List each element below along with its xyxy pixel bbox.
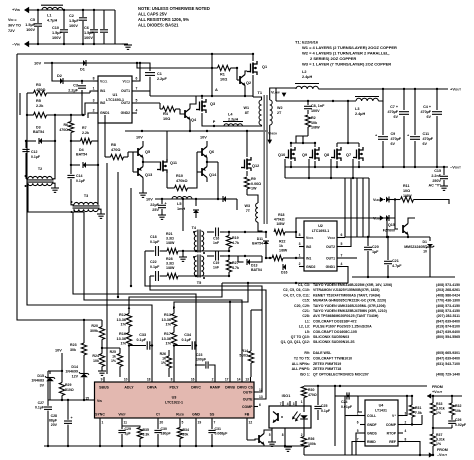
capacitor C11 — [414, 89, 416, 135]
svg-text:R23: R23 — [70, 343, 77, 347]
svg-text:ALL RESISTORS 1206, 5%: ALL RESISTORS 1206, 5% — [138, 17, 189, 22]
ISO1 arrows — [293, 412, 298, 419]
svg-text:2.2k: 2.2k — [36, 104, 44, 108]
wire main input bus — [17, 53, 253, 55]
svg-text:C25: C25 — [321, 404, 327, 408]
svg-text:R10: R10 — [176, 174, 183, 178]
wire U2 right — [342, 237, 345, 239]
svg-text:0.1µF: 0.1µF — [35, 406, 45, 410]
svg-text:COILCRAFT TTWB1010: COILCRAFT TTWB1010 — [313, 356, 352, 360]
svg-text:C22: C22 — [150, 260, 157, 264]
svg-text:RTOP: RTOP — [387, 432, 397, 436]
svg-text:U1: U1 — [113, 92, 119, 97]
svg-text:LTC1693-1: LTC1693-1 — [312, 229, 329, 233]
wire net A horiz — [150, 95, 253, 97]
svg-text:W3: W3 — [244, 204, 250, 208]
capacitor C5 — [37, 10, 39, 23]
svg-text:U3: U3 — [172, 396, 177, 400]
svg-text:C34: C34 — [184, 333, 192, 337]
svg-text:20: 20 — [160, 421, 164, 425]
svg-text:C21:: C21: — [302, 309, 310, 313]
svg-text:R12: R12 — [119, 313, 126, 317]
svg-text:4: 4 — [405, 429, 407, 433]
svg-text:Q7 TO Q10:: Q7 TO Q10: — [291, 335, 310, 339]
resistor R22 — [272, 255, 283, 260]
svg-text:1%: 1% — [436, 411, 442, 415]
svg-text:510Ω: 510Ω — [65, 388, 74, 392]
resistor R12 — [126, 314, 131, 327]
svg-text:Q4: Q4 — [191, 118, 197, 122]
svg-text:CS: CS — [248, 386, 254, 390]
wire u4 ref — [403, 442, 420, 456]
svg-text:L3: L3 — [355, 107, 359, 111]
wire gate harness h — [285, 177, 369, 179]
svg-text:(847) 639-6400: (847) 639-6400 — [436, 356, 460, 360]
svg-text:1.5µF: 1.5µF — [52, 31, 62, 35]
transistor Q4 — [184, 110, 186, 118]
transformer T5 — [194, 256, 197, 276]
svg-text:C20, C29:: C20, C29: — [294, 304, 310, 308]
svg-text:1W: 1W — [251, 187, 257, 191]
wire harness verts — [344, 178, 346, 237]
wire driver vert a — [106, 163, 108, 374]
svg-text:4: 4 — [341, 262, 343, 266]
svg-text:Q11: Q11 — [170, 161, 177, 165]
capacitor C22u — [161, 199, 163, 204]
svg-text:1.5µF: 1.5µF — [69, 19, 79, 23]
svg-text:1%: 1% — [166, 342, 172, 346]
svg-text:10: 10 — [124, 378, 128, 382]
resistor R29 — [59, 383, 64, 396]
svg-text:10V: 10V — [34, 61, 41, 66]
ISO1 phototransistor — [277, 413, 279, 421]
transistor Q7 — [356, 150, 358, 159]
svg-text:Q15: Q15 — [388, 223, 395, 227]
svg-text:14: 14 — [237, 378, 241, 382]
wire vin row — [48, 399, 95, 401]
svg-text:L2, L3:: L2, L3: — [299, 325, 310, 329]
resistor R13 — [171, 314, 176, 327]
svg-text:20k: 20k — [183, 433, 189, 437]
svg-text:GND1: GND1 — [326, 265, 336, 269]
transformer T1 W1 — [259, 100, 262, 125]
svg-text:13.3k: 13.3k — [116, 337, 126, 341]
svg-text:C10: C10 — [52, 26, 59, 30]
U1 pin stubs — [93, 80, 98, 82]
svg-text:ISO1: ISO1 — [282, 394, 291, 398]
svg-text:9.31k: 9.31k — [436, 438, 445, 442]
svg-text:0.02µF: 0.02µF — [455, 423, 467, 427]
svg-text:Q13: Q13 — [145, 173, 152, 177]
svg-text:U2: U2 — [318, 224, 323, 228]
wire t5 sec top — [224, 255, 262, 257]
svg-text:470µF: 470µF — [387, 110, 398, 114]
svg-text:3: 3 — [405, 412, 407, 416]
ISO1 grounds — [268, 441, 276, 443]
svg-text:(770) 436-1300: (770) 436-1300 — [436, 299, 460, 303]
svg-text:ALL NPNs:: ALL NPNs: — [292, 362, 310, 366]
svg-text:GND2: GND2 — [306, 265, 316, 269]
wire rail y131 — [125, 130, 268, 132]
svg-text:R33: R33 — [436, 402, 442, 406]
wire -VIN rail — [27, 43, 122, 45]
wire q14 down — [195, 172, 197, 188]
svg-text:R26: R26 — [160, 352, 166, 356]
svg-text:7.5k: 7.5k — [415, 411, 422, 415]
svg-text:COILCRAFT DO1608C-105: COILCRAFT DO1608C-105 — [313, 330, 357, 334]
svg-text:Q9: Q9 — [302, 153, 307, 157]
svg-text:6V: 6V — [393, 115, 398, 119]
svg-text:7: 7 — [214, 421, 216, 425]
svg-text:Q7: Q7 — [346, 153, 351, 157]
svg-text:C27: C27 — [38, 401, 44, 405]
svg-text:6: 6 — [136, 77, 138, 81]
svg-text:C8, 1nF: C8, 1nF — [311, 104, 325, 108]
svg-text:TAIYO YUDEN EMK316BJ225M (X5R,: TAIYO YUDEN EMK316BJ225M (X5R, 16V, 1206… — [313, 283, 392, 287]
svg-text:20V: 20V — [51, 423, 58, 427]
svg-text:BAT54: BAT54 — [252, 242, 263, 246]
svg-text:0.1µF: 0.1µF — [136, 338, 146, 342]
wire row y277 — [352, 276, 455, 278]
svg-text:2: 2 — [93, 109, 95, 113]
svg-text:100V: 100V — [26, 28, 35, 32]
svg-text:BAT54: BAT54 — [76, 153, 87, 157]
svg-text:C7 +: C7 + — [390, 105, 398, 109]
driver U2 box — [304, 221, 337, 271]
svg-text:C14: C14 — [76, 174, 82, 178]
resistor R30 — [301, 387, 306, 398]
wire u4 vplus — [403, 396, 407, 416]
wire -VOUT rail — [285, 166, 448, 168]
wire loop P — [174, 283, 248, 311]
svg-text:GND: GND — [192, 413, 200, 417]
diode D row2 — [223, 196, 226, 202]
svg-text:10V: 10V — [55, 349, 62, 353]
svg-text:VCC2: VCC2 — [328, 236, 336, 240]
svg-text:Q12: Q12 — [252, 164, 259, 168]
svg-text:FB: FB — [245, 413, 250, 417]
svg-text:PDLY: PDLY — [169, 386, 179, 390]
svg-text:R8: R8 — [111, 143, 116, 147]
svg-text:L5:: L5: — [305, 330, 310, 334]
wire loop x27 — [27, 93, 152, 377]
svg-text:C28: C28 — [51, 414, 57, 418]
wire gnd pin down — [195, 424, 197, 446]
svg-text:+VIN: +VIN — [12, 7, 20, 12]
svg-text:W2 = 4 LAYERS (1 TURN/LAYER 2: W2 = 4 LAYERS (1 TURN/LAYER 2 PARALLEL, — [302, 51, 390, 56]
svg-text:+VOUT: +VOUT — [450, 87, 461, 92]
wire u1 out2 — [137, 102, 160, 104]
svg-text:(847) 639-6400: (847) 639-6400 — [436, 319, 460, 323]
svg-text:W3 = 1 LAYER (7 TURNS/LAYER) 2: W3 = 1 LAYER (7 TURNS/LAYER) 2OZ COPPER — [302, 62, 391, 67]
svg-text:VCC1: VCC1 — [306, 236, 314, 240]
svg-text:470kΩ: 470kΩ — [176, 179, 188, 183]
capacitor C12 — [22, 148, 29, 150]
U2 pin stubs — [299, 237, 304, 239]
svg-text:R21: R21 — [166, 232, 173, 236]
capacitor C30 — [157, 424, 159, 429]
resistor R34 — [177, 428, 182, 439]
wire sync down — [99, 424, 101, 446]
ground bottom — [284, 446, 292, 448]
capacitor C20 — [367, 237, 369, 246]
svg-text:1k: 1k — [112, 355, 116, 359]
svg-text:R37: R37 — [436, 433, 442, 437]
wire loop e — [84, 212, 242, 377]
resistor R37 — [430, 434, 435, 446]
svg-text:10k: 10k — [93, 359, 99, 363]
svg-text:1µF: 1µF — [372, 250, 379, 254]
capacitor C3 — [81, 81, 83, 84]
svg-text:C11: C11 — [423, 132, 430, 136]
capacitor C24 — [335, 395, 346, 397]
svg-text:1/8W: 1/8W — [311, 126, 320, 130]
svg-text:470Ω: 470Ω — [308, 393, 317, 397]
wire u4 comp — [403, 424, 422, 426]
svg-text:2: 2 — [405, 421, 407, 425]
svg-text:1%: 1% — [121, 323, 127, 327]
svg-text:2: 2 — [212, 378, 214, 382]
svg-text:C1, C3:: C1, C3: — [298, 283, 310, 287]
svg-text:IN1: IN1 — [306, 257, 311, 261]
svg-text:C21: C21 — [392, 259, 399, 263]
svg-text:Q8: Q8 — [324, 153, 329, 157]
svg-text:R9: R9 — [251, 177, 256, 181]
capacitor C8 — [307, 101, 309, 105]
svg-text:Q3: Q3 — [210, 102, 215, 106]
svg-text:BAT54: BAT54 — [33, 130, 44, 134]
svg-text:D13: D13 — [251, 264, 257, 268]
svg-text:1/8W: 1/8W — [166, 266, 175, 270]
svg-text:T2 TO T5:: T2 TO T5: — [294, 356, 310, 360]
svg-text:13.3k: 13.3k — [161, 337, 171, 341]
svg-text:(605) 665-9301: (605) 665-9301 — [436, 351, 460, 355]
capacitor C6b — [103, 10, 105, 29]
wire r3-r5 left — [19, 93, 21, 115]
capacitor C14 — [70, 165, 72, 174]
svg-text:DRVA: DRVA — [147, 386, 157, 390]
svg-text:6: 6 — [341, 233, 343, 237]
svg-text:1/8W: 1/8W — [279, 249, 288, 253]
svg-text:NOTE: UNLESS OTHERWISE NOTED: NOTE: UNLESS OTHERWISE NOTED — [138, 6, 210, 11]
svg-text:GNDF: GNDF — [367, 423, 377, 427]
svg-text:100pF: 100pF — [196, 358, 207, 362]
diode D vhigh — [386, 197, 389, 203]
wire left border loop1 — [17, 54, 102, 320]
svg-text:(800) 554-5565: (800) 554-5565 — [436, 335, 460, 339]
svg-text:3: 3 — [299, 242, 301, 246]
svg-text:6V: 6V — [391, 142, 396, 146]
svg-text:7: 7 — [280, 402, 282, 406]
svg-text:7: 7 — [341, 254, 343, 258]
svg-text:470Ω: 470Ω — [111, 148, 120, 152]
svg-text:GND2: GND2 — [121, 111, 131, 115]
svg-text:470µF: 470µF — [391, 137, 402, 141]
svg-text:SILICONIX SUD50N03: SILICONIX SUD50N03 — [313, 335, 349, 339]
svg-text:W1: W1 — [243, 106, 249, 110]
IC U4 LT1431 box — [365, 400, 398, 446]
wire gate bus — [284, 159, 286, 178]
svg-text:R20: R20 — [91, 324, 98, 328]
transistor Q1 — [250, 64, 252, 73]
transistor Q14 — [201, 168, 203, 176]
svg-text:ALL CAPS 25V: ALL CAPS 25V — [138, 12, 167, 17]
svg-text:SILICONIX SUD00N10-2S: SILICONIX SUD00N10-2S — [313, 340, 355, 344]
svg-text:QT OPTOELECTRONICS MOC207: QT OPTOELECTRONICS MOC207 — [313, 373, 369, 377]
driver U1 box — [98, 76, 132, 123]
capacitor C19 — [207, 255, 214, 257]
svg-text:1/8W: 1/8W — [276, 222, 285, 226]
svg-text:30k: 30k — [70, 348, 76, 352]
svg-text:FROM: FROM — [437, 448, 448, 452]
svg-text:C28:: C28: — [302, 314, 310, 318]
capacitor C9 — [382, 101, 384, 135]
svg-text:17: 17 — [225, 378, 229, 382]
svg-text:R6: R6 — [64, 123, 69, 127]
capacitor C29 — [121, 424, 123, 429]
svg-text:36V TO: 36V TO — [8, 24, 21, 28]
capacitor C1 — [137, 63, 150, 71]
capacitor C34 — [174, 345, 191, 347]
diode D16 — [283, 264, 286, 270]
svg-text:2.4µH: 2.4µH — [302, 75, 312, 79]
ground iso5b — [271, 433, 273, 442]
wire r17 down — [173, 346, 175, 378]
svg-text:LTC1922-1: LTC1922-1 — [165, 401, 183, 405]
ground T45 — [182, 251, 184, 257]
svg-text:6V: 6V — [426, 115, 431, 119]
svg-text:C24: C24 — [341, 400, 347, 404]
svg-text:D11: D11 — [257, 237, 263, 241]
svg-text:C4, C7, C9, C11:: C4, C7, C9, C11: — [283, 293, 310, 297]
svg-text:3V: 3V — [40, 383, 45, 387]
svg-text:4.7µF: 4.7µF — [392, 264, 402, 268]
svg-text:D14: D14 — [71, 365, 78, 369]
svg-text:4.7µH: 4.7µH — [47, 19, 57, 23]
svg-text:7: 7 — [357, 438, 359, 442]
diode D1 — [83, 60, 86, 66]
svg-text:VITRAMON VJ1825Y155MXB(X7R, 18: VITRAMON VJ1825Y155MXB(X7R, 1825) — [313, 288, 380, 292]
svg-text:R35: R35 — [143, 428, 149, 432]
transistor Q3 — [199, 102, 201, 111]
wire q6q14 out — [207, 161, 218, 163]
svg-text:REF: REF — [389, 440, 396, 444]
svg-text:2T: 2T — [277, 111, 282, 115]
transistor Q8 — [334, 150, 336, 159]
svg-text:4.7k: 4.7k — [232, 241, 239, 245]
svg-text:1: 1 — [102, 421, 104, 425]
svg-text:C5: C5 — [30, 18, 35, 22]
svg-text:180pF: 180pF — [161, 432, 172, 436]
wire +VOUT rail — [345, 88, 448, 90]
svg-text:10V: 10V — [200, 136, 207, 140]
svg-text:0.1µF: 0.1µF — [31, 155, 41, 159]
svg-text:25V: 25V — [152, 208, 159, 212]
svg-text:250V: 250V — [432, 179, 441, 183]
svg-text:8: 8 — [299, 233, 301, 237]
wire loop x73 — [73, 212, 196, 377]
svg-text:1.5µF: 1.5µF — [84, 31, 94, 35]
svg-text:W1 = 4 LAYERS (2 TURNS/LAYER): W1 = 4 LAYERS (2 TURNS/LAYER) 2OOZ COPPE… — [302, 45, 397, 50]
svg-text:L2: L2 — [302, 70, 306, 74]
svg-text:12: 12 — [249, 421, 253, 425]
capacitor C4 — [436, 89, 438, 110]
svg-text:+: + — [71, 416, 73, 420]
svg-text:D3: D3 — [36, 126, 41, 130]
svg-text:0.1µF: 0.1µF — [150, 265, 160, 269]
svg-text:1%: 1% — [121, 342, 127, 346]
svg-text:1: 1 — [93, 87, 95, 91]
wire harness verts2 — [334, 386, 336, 446]
wire t4 sec bot — [196, 250, 229, 252]
U4 pin stubs — [360, 415, 365, 417]
resistor R1 — [218, 65, 231, 70]
resistor R2 — [305, 115, 310, 127]
svg-text:1%: 1% — [166, 323, 172, 327]
capacitor C16 — [207, 231, 214, 233]
wire loop oute — [150, 276, 266, 399]
wire u1 vcc2 up — [137, 63, 140, 81]
svg-text:BAT54: BAT54 — [251, 268, 262, 272]
svg-text:0.1µF: 0.1µF — [181, 338, 191, 342]
svg-text:0.1µF: 0.1µF — [76, 179, 86, 183]
svg-text:R22: R22 — [279, 240, 285, 244]
svg-text:Q10: Q10 — [278, 153, 285, 157]
wire bottom rail — [44, 445, 310, 447]
wire fromvout node — [427, 395, 462, 397]
svg-text:COMP: COMP — [242, 405, 253, 409]
transistor Q5 — [137, 148, 139, 156]
svg-text:MMSZ4240BT: MMSZ4240BT — [404, 245, 428, 249]
svg-text:1: 1 — [299, 254, 301, 258]
svg-text:DRVB: DRVB — [225, 386, 235, 390]
inductor L5 — [172, 197, 192, 200]
svg-text:1%: 1% — [436, 442, 442, 446]
svg-text:10: 10 — [423, 250, 427, 254]
svg-text:1nF: 1nF — [213, 266, 219, 270]
svg-text:8: 8 — [171, 378, 173, 382]
svg-text:R28: R28 — [166, 257, 173, 261]
svg-text:TAIYO YUDEN EMK325BJ475MN (X5R: TAIYO YUDEN EMK325BJ475MN (X5R, 1210) — [313, 309, 387, 313]
transistor Q6 — [201, 148, 203, 156]
svg-text:(847) 639-6400: (847) 639-6400 — [436, 330, 460, 334]
svg-text:Q1: Q1 — [262, 65, 267, 69]
svg-text:Q1, Q3, Q11, Q12:: Q1, Q3, Q11, Q12: — [281, 340, 310, 344]
svg-text:68µF: 68µF — [49, 419, 58, 423]
svg-text:ADLY: ADLY — [124, 386, 134, 390]
svg-text:C6: C6 — [84, 26, 89, 30]
svg-text:0.1µF: 0.1µF — [150, 240, 160, 244]
wire d3 net — [54, 115, 56, 141]
svg-text:C19: C19 — [213, 261, 219, 265]
capacitor C33 — [129, 345, 146, 347]
svg-text:1/8W: 1/8W — [166, 241, 175, 245]
svg-text:OUT2: OUT2 — [326, 245, 335, 249]
transformer T3 — [74, 202, 98, 204]
svg-text:1N4683: 1N4683 — [31, 379, 44, 383]
svg-text:VIN =: VIN = — [8, 18, 17, 22]
wire u1 gnd1 — [88, 113, 93, 118]
svg-text:R25: R25 — [110, 350, 116, 354]
svg-text:2.2µH: 2.2µH — [228, 117, 238, 121]
svg-text:18: 18 — [147, 378, 151, 382]
svg-text:10k: 10k — [455, 409, 461, 413]
IC U3 LTC1922-1 box — [95, 382, 255, 418]
svg-text:8: 8 — [93, 77, 95, 81]
svg-text:R36: R36 — [308, 437, 314, 441]
svg-text:ISO 1:: ISO 1: — [300, 373, 310, 377]
wire u4 gnd — [356, 433, 360, 455]
